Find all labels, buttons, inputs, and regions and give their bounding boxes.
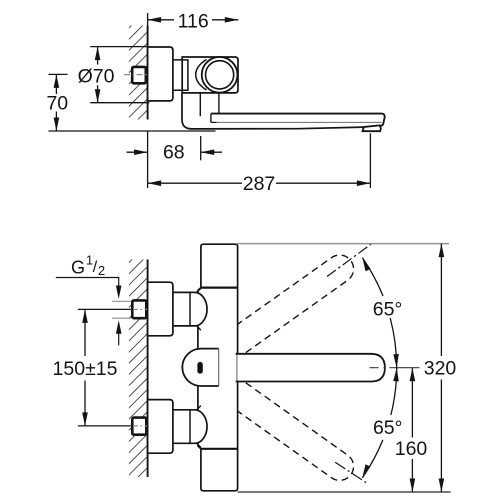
spout top edge and tip (top view) (211, 114, 385, 128)
bottom union cone and dome (173, 410, 207, 444)
wall face line (front view) (147, 260, 149, 478)
dimension 68 (127, 151, 148, 153)
baseline extension for dim 70 (top view) (49, 130, 216, 132)
svg-text:Ø70: Ø70 (78, 65, 115, 87)
cartridge housing box (top view) (182, 57, 238, 93)
top escutcheon (front view) (148, 282, 173, 336)
solid spout (front view) (237, 354, 385, 382)
spout root step (top view) (210, 114, 212, 123)
extension line above wall for dim 116 (147, 13, 149, 47)
top nut centerline dashes (133, 308, 147, 310)
dimension 287 (148, 182, 371, 184)
bottom supply nut (front view) (132, 418, 146, 435)
G 1/2 lower arrow (118, 333, 120, 346)
barrel left edge (front view) (198, 288, 201, 449)
dimension diameter 70 (90, 47, 149, 103)
svg-text:160: 160 (395, 438, 428, 460)
spout mid line (top view) (211, 121, 217, 123)
valve head outer circle (top view) (202, 57, 238, 93)
svg-text:65°: 65° (373, 299, 403, 321)
top union chamfers (196, 288, 201, 330)
spout horizontal centerline (370, 367, 420, 369)
extension line for dim 68 right (200, 136, 202, 160)
wall face line (top view) (147, 26, 149, 120)
dashed spout rotated up (238, 255, 354, 353)
lower rotated centerline (335, 462, 367, 483)
cylinder silhouette arc (top view) (196, 59, 207, 90)
arc arrowheads (393, 354, 399, 368)
bottom nut centerline dashes (133, 425, 147, 427)
bottom escutcheon (front view) (148, 400, 173, 454)
dimension 320 (237, 243, 449, 245)
65 degree arc upper (390, 318, 397, 368)
spout base and bottom outline (top view) (182, 93, 364, 129)
nut centerline (top view) (124, 74, 152, 76)
bottom divider line (201, 448, 238, 450)
knob right edge (218, 349, 220, 386)
G 1/2 leader line (56, 278, 119, 289)
dimension 70 (49, 74, 68, 131)
temperature knob (front view) (182, 349, 218, 386)
svg-text:320: 320 (424, 358, 457, 380)
bottom union chamfers (196, 406, 201, 448)
svg-text:70: 70 (46, 93, 68, 115)
svg-text:116: 116 (178, 11, 209, 33)
extension line at spout tip for dim 287 (369, 133, 371, 188)
top divider line (201, 287, 238, 289)
svg-text:2: 2 (98, 263, 105, 278)
dimension 116 (148, 19, 239, 21)
svg-text:68: 68 (163, 142, 185, 164)
spout root thin edge (front view) (236, 355, 238, 381)
upper rotated centerline (327, 244, 371, 276)
body column (front view) (201, 244, 238, 491)
65 degree arc lower (391, 368, 397, 415)
top nut thread extension lines (112, 300, 131, 302)
svg-text:G: G (71, 258, 85, 278)
extension line below wall for dims 68/287 (147, 131, 149, 188)
svg-text:150±15: 150±15 (53, 358, 118, 380)
top supply nut (front view) (132, 300, 146, 318)
knob slot marker (197, 362, 202, 374)
neck between flange and housing (top view) (173, 60, 188, 90)
svg-text:287: 287 (243, 173, 276, 195)
valve head inner circle (top view) (206, 61, 234, 89)
dimension 150 plus/minus 15 (78, 309, 131, 426)
flange escutcheon (top view) (148, 47, 173, 101)
wall hatching (front view) (129, 260, 148, 478)
mousseur aerator (top view) (363, 125, 381, 131)
top union cone and dome (173, 292, 207, 326)
down tube edges (top view) (199, 93, 201, 116)
dashed spout rotated down (238, 383, 354, 481)
supply nut in wall (top view) (132, 67, 146, 83)
svg-text:65°: 65° (373, 417, 403, 439)
dimension 160 (411, 368, 413, 492)
wall hatching (top view) (129, 26, 148, 120)
